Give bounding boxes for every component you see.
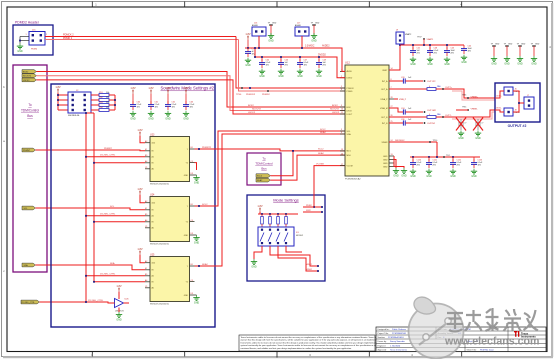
wire LRCK2	[36, 80, 345, 114]
test point TP10	[429, 140, 438, 143]
svg-text:SDOUT2: SDOUT2	[252, 109, 262, 111]
svg-text:C34: C34	[401, 108, 404, 110]
resistor R51	[91, 92, 115, 96]
svg-text:3: 3	[341, 129, 342, 131]
junction output	[198, 265, 200, 267]
junction SCL2	[292, 150, 294, 152]
junction output	[198, 148, 200, 150]
capacitor C47	[297, 57, 309, 78]
svg-text:PAD: PAD	[437, 85, 441, 88]
ground mode	[251, 259, 257, 269]
svg-text:I2C-SEL_CTRL: I2C-SEL_CTRL	[100, 274, 116, 276]
svg-text:OUT_A: OUT_A	[381, 88, 388, 91]
svg-text:PDMCK: PDMCK	[347, 88, 355, 90]
svg-text:INT_A: INT_A	[382, 80, 388, 83]
svg-text:OUT2+: OUT2+	[496, 96, 502, 98]
wire J7 tie	[513, 91, 524, 112]
wire SW2	[303, 211, 322, 213]
svg-text:A2: A2	[145, 140, 147, 143]
net flag SDA2 (bus)	[256, 178, 270, 182]
wire resnet feed	[58, 93, 68, 110]
svg-text:vDD: vDD	[152, 203, 156, 205]
svg-text:VINB_P: VINB_P	[399, 99, 407, 101]
wire rail tie	[254, 48, 256, 57]
svg-text:system functionality for your: system functionality for your applicatio…	[241, 344, 388, 347]
svg-text:B1: B1	[191, 204, 193, 206]
border zone ticks top	[92, 2, 461, 8]
svg-text:LMC7674: LMC7674	[115, 310, 125, 312]
svg-text:4: 4	[341, 132, 342, 134]
svg-text:17: 17	[341, 164, 343, 166]
resistor RN pullup 1	[261, 214, 264, 227]
svg-text:A0: A0	[152, 227, 154, 230]
capacitor C43	[444, 45, 456, 66]
capacitor C40	[259, 57, 271, 78]
wire PDMCK2	[45, 36, 236, 38]
wire U25 ctrl a	[86, 275, 145, 277]
net label OUT2 pair	[496, 96, 502, 110]
svg-text:OUT2-: OUT2-	[496, 108, 502, 110]
ground CX1	[458, 131, 464, 141]
svg-text:I2C-SEL_CTRL: I2C-SEL_CTRL	[100, 155, 116, 157]
svg-text:C5: C5	[191, 161, 193, 163]
junction	[93, 221, 95, 223]
svg-text:SDA: SDA	[24, 264, 29, 267]
connector J7	[524, 95, 534, 109]
svg-text:C1: C1	[145, 286, 147, 288]
wire SDA2 bus riser	[270, 155, 345, 180]
resistor RN pullup 4	[285, 214, 288, 227]
svg-text:B5: B5	[145, 214, 147, 216]
svg-text:C1: C1	[145, 226, 147, 228]
wire OUT_B row	[389, 116, 427, 118]
svg-text:GND: GND	[184, 295, 189, 297]
junction C40	[261, 56, 263, 58]
wire bypass rail	[410, 156, 480, 158]
svg-text:LRCK2: LRCK2	[23, 80, 30, 82]
svg-text:DVDD: DVDD	[347, 78, 353, 80]
wire rail DVDD	[255, 57, 345, 78]
wire bus vertical B	[93, 113, 95, 282]
wire OUT2+ shadow	[452, 91, 495, 100]
svg-text:BCK2: BCK2	[332, 105, 338, 107]
power 1.8V (U25)	[137, 247, 143, 255]
power 1.8V (U24)	[137, 187, 143, 195]
junction tie	[254, 47, 256, 58]
wire SCL2 bus riser	[270, 151, 293, 176]
svg-text:SDA: SDA	[110, 262, 115, 265]
dip switch S2	[258, 227, 304, 246]
test point TP33	[424, 122, 426, 124]
svg-text:U23: U23	[150, 133, 155, 136]
wire J16 drop	[258, 36, 260, 48]
svg-text:OUTPUT #2: OUTPUT #2	[508, 124, 527, 128]
ground U26	[118, 308, 120, 313]
TI logo	[514, 331, 536, 339]
decoupling cap C62 column	[165, 86, 177, 120]
test point OUT1+	[442, 88, 444, 90]
wire PDMD2	[45, 39, 239, 41]
svg-text:OUT1M2: OUT1M2	[427, 110, 437, 112]
svg-text:B1: B1	[191, 147, 193, 149]
wire U24 output SCL2	[195, 131, 346, 206]
junction MD02	[317, 270, 319, 272]
no-connect X	[473, 118, 483, 131]
svg-text:OUT2-: OUT2-	[445, 115, 452, 117]
wire gnd cluster	[394, 156, 404, 168]
decoupling cap C61 column	[148, 86, 160, 120]
svg-text:VCOM2: VCOM2	[316, 163, 325, 165]
svg-text:C5: C5	[191, 280, 193, 282]
svg-text:9: 9	[341, 105, 342, 107]
wire J8	[495, 110, 504, 112]
junction VBST	[399, 44, 401, 46]
test point TP26 w gnd	[517, 43, 526, 65]
decoupling cap C63 column	[183, 86, 195, 120]
junction	[85, 215, 87, 217]
test point TP4	[443, 155, 450, 158]
net flag I2C-SEL_CTRL	[21, 300, 39, 304]
svg-text:A0: A0	[152, 287, 154, 290]
svg-text:A4: A4	[145, 160, 147, 163]
svg-text:0: 0	[429, 114, 430, 116]
resistor R54	[91, 107, 115, 111]
test point TP29 w gnd	[504, 43, 513, 65]
resistor R53	[91, 102, 115, 106]
svg-text:GND: GND	[383, 160, 388, 162]
junction SW2	[321, 211, 323, 213]
test point TP47	[417, 36, 434, 45]
svg-text:BCK2: BCK2	[23, 71, 29, 73]
svg-text:Number:: Number:	[378, 337, 386, 339]
svg-text:LRCK: LRCK	[347, 110, 353, 112]
svg-text:DRV8002: DRV8002	[395, 140, 405, 142]
junction C49	[318, 56, 320, 58]
junction C48	[429, 44, 431, 46]
svg-text:J. Bonifield: J. Bonifield	[390, 345, 401, 347]
svg-text:PCM186xEVM-U: PCM186xEVM-U	[388, 337, 404, 339]
test point TP45	[462, 106, 478, 111]
OUTPUT B2 box	[495, 83, 540, 128]
svg-text:A4: A4	[145, 279, 147, 282]
svg-text:0: 0	[429, 86, 430, 88]
wire U24 ctrl b	[94, 221, 145, 223]
svg-text:J7: J7	[527, 95, 529, 97]
watermark glyph 4	[504, 309, 522, 331]
junction	[19, 40, 21, 42]
svg-text:SDA2: SDA2	[257, 179, 263, 182]
IC U12 (main codec)	[340, 61, 394, 181]
capacitor C151	[426, 157, 438, 178]
svg-text:U12: U12	[345, 61, 350, 65]
capacitor C33 (series)	[401, 77, 423, 84]
header J16	[252, 22, 266, 36]
capacitor C46	[278, 57, 289, 78]
buffer U26	[113, 292, 129, 313]
wire rail AVDD	[245, 48, 345, 71]
header J9	[396, 30, 412, 44]
svg-text:PCM1863DCA2: PCM1863DCA2	[345, 178, 361, 181]
IC U25	[145, 253, 197, 305]
wire resistor tie	[86, 95, 115, 113]
resistor network J2	[68, 90, 91, 117]
svg-text:Designed for:: Designed for:	[378, 329, 390, 331]
border zone ticks bottom	[92, 352, 461, 358]
wire INT_A row	[389, 80, 403, 82]
svg-text:D3: D3	[191, 233, 193, 235]
svg-text:OUT1P2: OUT1P2	[427, 81, 436, 83]
test point TP28 w gnd	[491, 43, 500, 65]
svg-text:Drawn by:: Drawn by:	[378, 341, 387, 343]
wire OUT2-	[436, 116, 452, 118]
watermark glyph 2	[465, 310, 482, 331]
svg-text:PDMCK2: PDMCK2	[246, 94, 256, 96]
svg-text:VBAT2: VBAT2	[405, 33, 412, 36]
svg-text:TDM/Control: TDM/Control	[21, 109, 39, 113]
wire PDMCK2 vertical drop	[236, 37, 345, 89]
junction C47	[299, 56, 301, 58]
power 1.8V (U23)	[137, 128, 143, 136]
wire J15 left pins	[20, 37, 29, 44]
ground CX2	[475, 131, 481, 141]
svg-text:Sonny Samudio: Sonny Samudio	[390, 341, 406, 343]
capacitor C44	[461, 45, 473, 64]
wire OUT_A row	[389, 88, 427, 90]
net flag SDA	[22, 263, 35, 267]
ground U23	[193, 175, 199, 185]
svg-text:vDD: vDD	[152, 143, 156, 145]
wire VBST	[389, 45, 400, 70]
svg-text:Mode Settings: Mode Settings	[273, 198, 299, 203]
svg-text:A4: A4	[145, 219, 147, 222]
wire VRMB- link	[456, 109, 468, 111]
no-connect X	[456, 118, 466, 131]
svg-text:VBAT1: VBAT1	[427, 38, 435, 41]
svg-text:SCL2: SCL2	[257, 176, 263, 178]
svg-text:vDD: vDD	[152, 263, 156, 265]
wire PDB2	[303, 206, 322, 208]
svg-text:BCK: BCK	[347, 107, 352, 109]
svg-text:5: 5	[341, 86, 342, 88]
svg-text:Y2: Y2	[186, 162, 188, 164]
svg-text:SN74LVC2G241DCU: SN74LVC2G241DCU	[150, 243, 170, 245]
junction	[85, 275, 87, 277]
svg-text:C5: C5	[191, 220, 193, 222]
svg-text:10k: 10k	[106, 97, 109, 99]
svg-text:SN74LVC2G241DCU: SN74LVC2G241DCU	[150, 303, 170, 305]
svg-text:MODE2: MODE2	[296, 235, 304, 237]
net flag PDMNT	[22, 148, 35, 152]
To TDM/Control Bus box (middle)	[247, 153, 281, 185]
svg-text:LRCK2: LRCK2	[248, 112, 256, 114]
svg-text:contained therein, and validat: contained therein, and validate and test…	[241, 347, 353, 350]
svg-text:SN74LVC2G241DCU: SN74LVC2G241DCU	[150, 183, 170, 185]
capacitor CX1 (DNP)	[458, 119, 464, 130]
svg-text:A1: A1	[152, 275, 154, 278]
watermark glyph 3	[486, 308, 499, 331]
svg-text:B5: B5	[145, 274, 147, 276]
ground	[17, 44, 23, 54]
wire OUT2+ to connector	[452, 89, 495, 98]
wire dip outputs	[254, 246, 318, 271]
svg-text:D3: D3	[191, 293, 193, 295]
svg-text:C33: C33	[401, 77, 404, 79]
junction J7	[518, 102, 520, 104]
ground IC a	[393, 168, 399, 178]
test point TP30	[424, 80, 426, 82]
svg-text:TP50: TP50	[236, 94, 242, 96]
test point OUT2-	[442, 116, 444, 118]
wire U23 output PDMNT2	[195, 149, 346, 151]
net flag SCL2 (bus)	[256, 174, 270, 178]
wire SWER drop	[436, 142, 438, 157]
svg-text:TP45: TP45	[462, 106, 466, 108]
net flag LRCK2	[22, 78, 36, 82]
svg-text:SDA2: SDA2	[318, 152, 324, 155]
capacitor C48	[427, 45, 439, 66]
svg-text:PDMNT: PDMNT	[23, 150, 31, 152]
svg-text:A2: A2	[145, 200, 147, 203]
junction J17	[301, 47, 303, 49]
wire SDOUT2	[36, 76, 345, 111]
svg-text:SDA: SDA	[347, 133, 352, 136]
svg-text:INT_B: INT_B	[382, 123, 388, 125]
svg-text:TP46: TP46	[462, 94, 466, 96]
junction	[93, 281, 95, 283]
wire J6	[495, 91, 504, 98]
svg-text:SCL2: SCL2	[318, 149, 324, 151]
svg-text:DOUT: DOUT	[347, 114, 353, 116]
svg-text:BCK2: BCK2	[248, 105, 254, 107]
svg-text:Instruments and/or its licenso: Instruments and/or its licensors do not …	[241, 341, 392, 344]
wire mode feed horizontal	[303, 206, 314, 208]
svg-text:Public Release: Public Release	[392, 329, 407, 331]
junction ties	[85, 99, 116, 114]
junction I2C-SEL	[85, 301, 87, 303]
junction C43	[446, 44, 448, 46]
connector J6	[504, 87, 520, 95]
wire SDA	[35, 265, 145, 270]
svg-text:10k: 10k	[106, 107, 109, 109]
ground U24	[193, 235, 199, 245]
IC U23	[145, 133, 197, 185]
svg-text:19: 19	[341, 149, 343, 151]
svg-text:20: 20	[341, 153, 343, 155]
svg-text:PDMD 2: PDMD 2	[63, 37, 73, 40]
wire INT_B row	[389, 122, 403, 124]
junction PDB2	[321, 206, 323, 208]
svg-text:To: To	[262, 157, 266, 161]
wire U23 aux pin	[195, 163, 197, 170]
svg-text:10: 10	[341, 109, 343, 111]
watermark glyph 1	[447, 312, 463, 331]
resistor RN pullup 2	[269, 214, 272, 227]
resistor R32 (series 0ohm)	[427, 113, 441, 118]
svg-text:U25: U25	[150, 253, 155, 256]
svg-text:OUT2+: OUT2+	[445, 87, 453, 89]
resistor RN pullup 3	[277, 214, 280, 227]
wire C7 stub	[247, 40, 249, 49]
net flag SCL	[22, 206, 35, 210]
test point TP46	[462, 94, 479, 99]
svg-text:SCL2: SCL2	[320, 129, 326, 131]
svg-text:Bus: Bus	[27, 114, 33, 118]
svg-text:MD02: MD02	[306, 269, 313, 271]
svg-text:PDMNT2: PDMNT2	[202, 147, 212, 149]
svg-text:VINA_P: VINA_P	[380, 98, 388, 101]
svg-text:C1: C1	[145, 167, 147, 169]
svg-text:AVDD: AVDD	[347, 70, 353, 73]
junction TP47	[423, 44, 425, 46]
power 1.8V (U26)	[116, 284, 122, 292]
svg-text:Approved:: Approved:	[378, 348, 388, 351]
svg-text:VINA_M: VINA_M	[380, 107, 388, 110]
capacitor C150	[410, 157, 422, 178]
svg-text:1: 1	[26, 34, 27, 36]
svg-text:PDMD2: PDMD2	[262, 94, 270, 96]
svg-text:Sheet Title:: Sheet Title:	[467, 348, 477, 351]
svg-text:Project Title:: Project Title:	[378, 332, 389, 335]
svg-text:GND: GND	[184, 235, 189, 237]
test point TP17 w gnd	[268, 22, 277, 42]
junction on PDM wire	[249, 87, 251, 89]
svg-text:AVDD2: AVDD2	[322, 44, 330, 47]
header J17	[295, 22, 309, 36]
power 1.8V (mode)	[257, 204, 263, 212]
capacitor C36 (series)	[401, 119, 423, 126]
svg-text:SWER: SWER	[382, 142, 389, 144]
svg-text:10k: 10k	[106, 102, 109, 104]
junction MD12	[317, 265, 319, 267]
svg-text:VBST: VBST	[382, 70, 388, 72]
wire I2C-SEL_CTRL	[39, 302, 113, 303]
capacitor C42	[410, 45, 421, 66]
svg-text:MD12: MD12	[306, 264, 313, 266]
svg-text:I2C-SEL_CTRL: I2C-SEL_CTRL	[88, 300, 104, 302]
To TDM/Control Bus box (left)	[13, 65, 47, 272]
net flag BCK2	[22, 70, 36, 74]
svg-text:A2: A2	[145, 260, 147, 263]
svg-text:Texas Instruments and/or its l: Texas Instruments and/or its licensors d…	[241, 336, 392, 339]
svg-text:3.3VADC: 3.3VADC	[305, 44, 315, 47]
wire BCK2	[36, 72, 345, 108]
wire U24 ctrl a	[86, 215, 145, 217]
wire OUT2- to connector	[452, 110, 495, 117]
net flag SDOUT2	[22, 74, 36, 78]
svg-text:VRMB-: VRMB-	[471, 108, 478, 110]
test point TP51	[267, 90, 269, 92]
test point TP27 w gnd	[531, 43, 540, 65]
power 1.8V (resnet)	[55, 85, 61, 93]
title block	[376, 327, 546, 352]
junction mode rail	[261, 213, 287, 215]
svg-text:11: 11	[341, 112, 343, 114]
svg-text:PDMNT: PDMNT	[104, 148, 112, 150]
capacitor CX2 (DNP)	[475, 119, 481, 130]
svg-text:SDOUT2: SDOUT2	[23, 76, 32, 78]
svg-text:SDA2: SDA2	[320, 131, 326, 134]
junction J16	[258, 47, 260, 49]
svg-text:PDMD2 Header: PDMD2 Header	[15, 21, 40, 25]
svg-text:I2C-SEL_CTRL: I2C-SEL_CTRL	[100, 214, 116, 216]
connector J15	[26, 30, 48, 51]
svg-text:Bus: Bus	[261, 167, 267, 171]
wire PDMNT	[35, 149, 145, 152]
svg-text:SDOUT2: SDOUT2	[330, 109, 340, 111]
junction	[85, 156, 87, 158]
svg-text:C36: C36	[401, 119, 404, 121]
test point TP32	[424, 111, 426, 113]
